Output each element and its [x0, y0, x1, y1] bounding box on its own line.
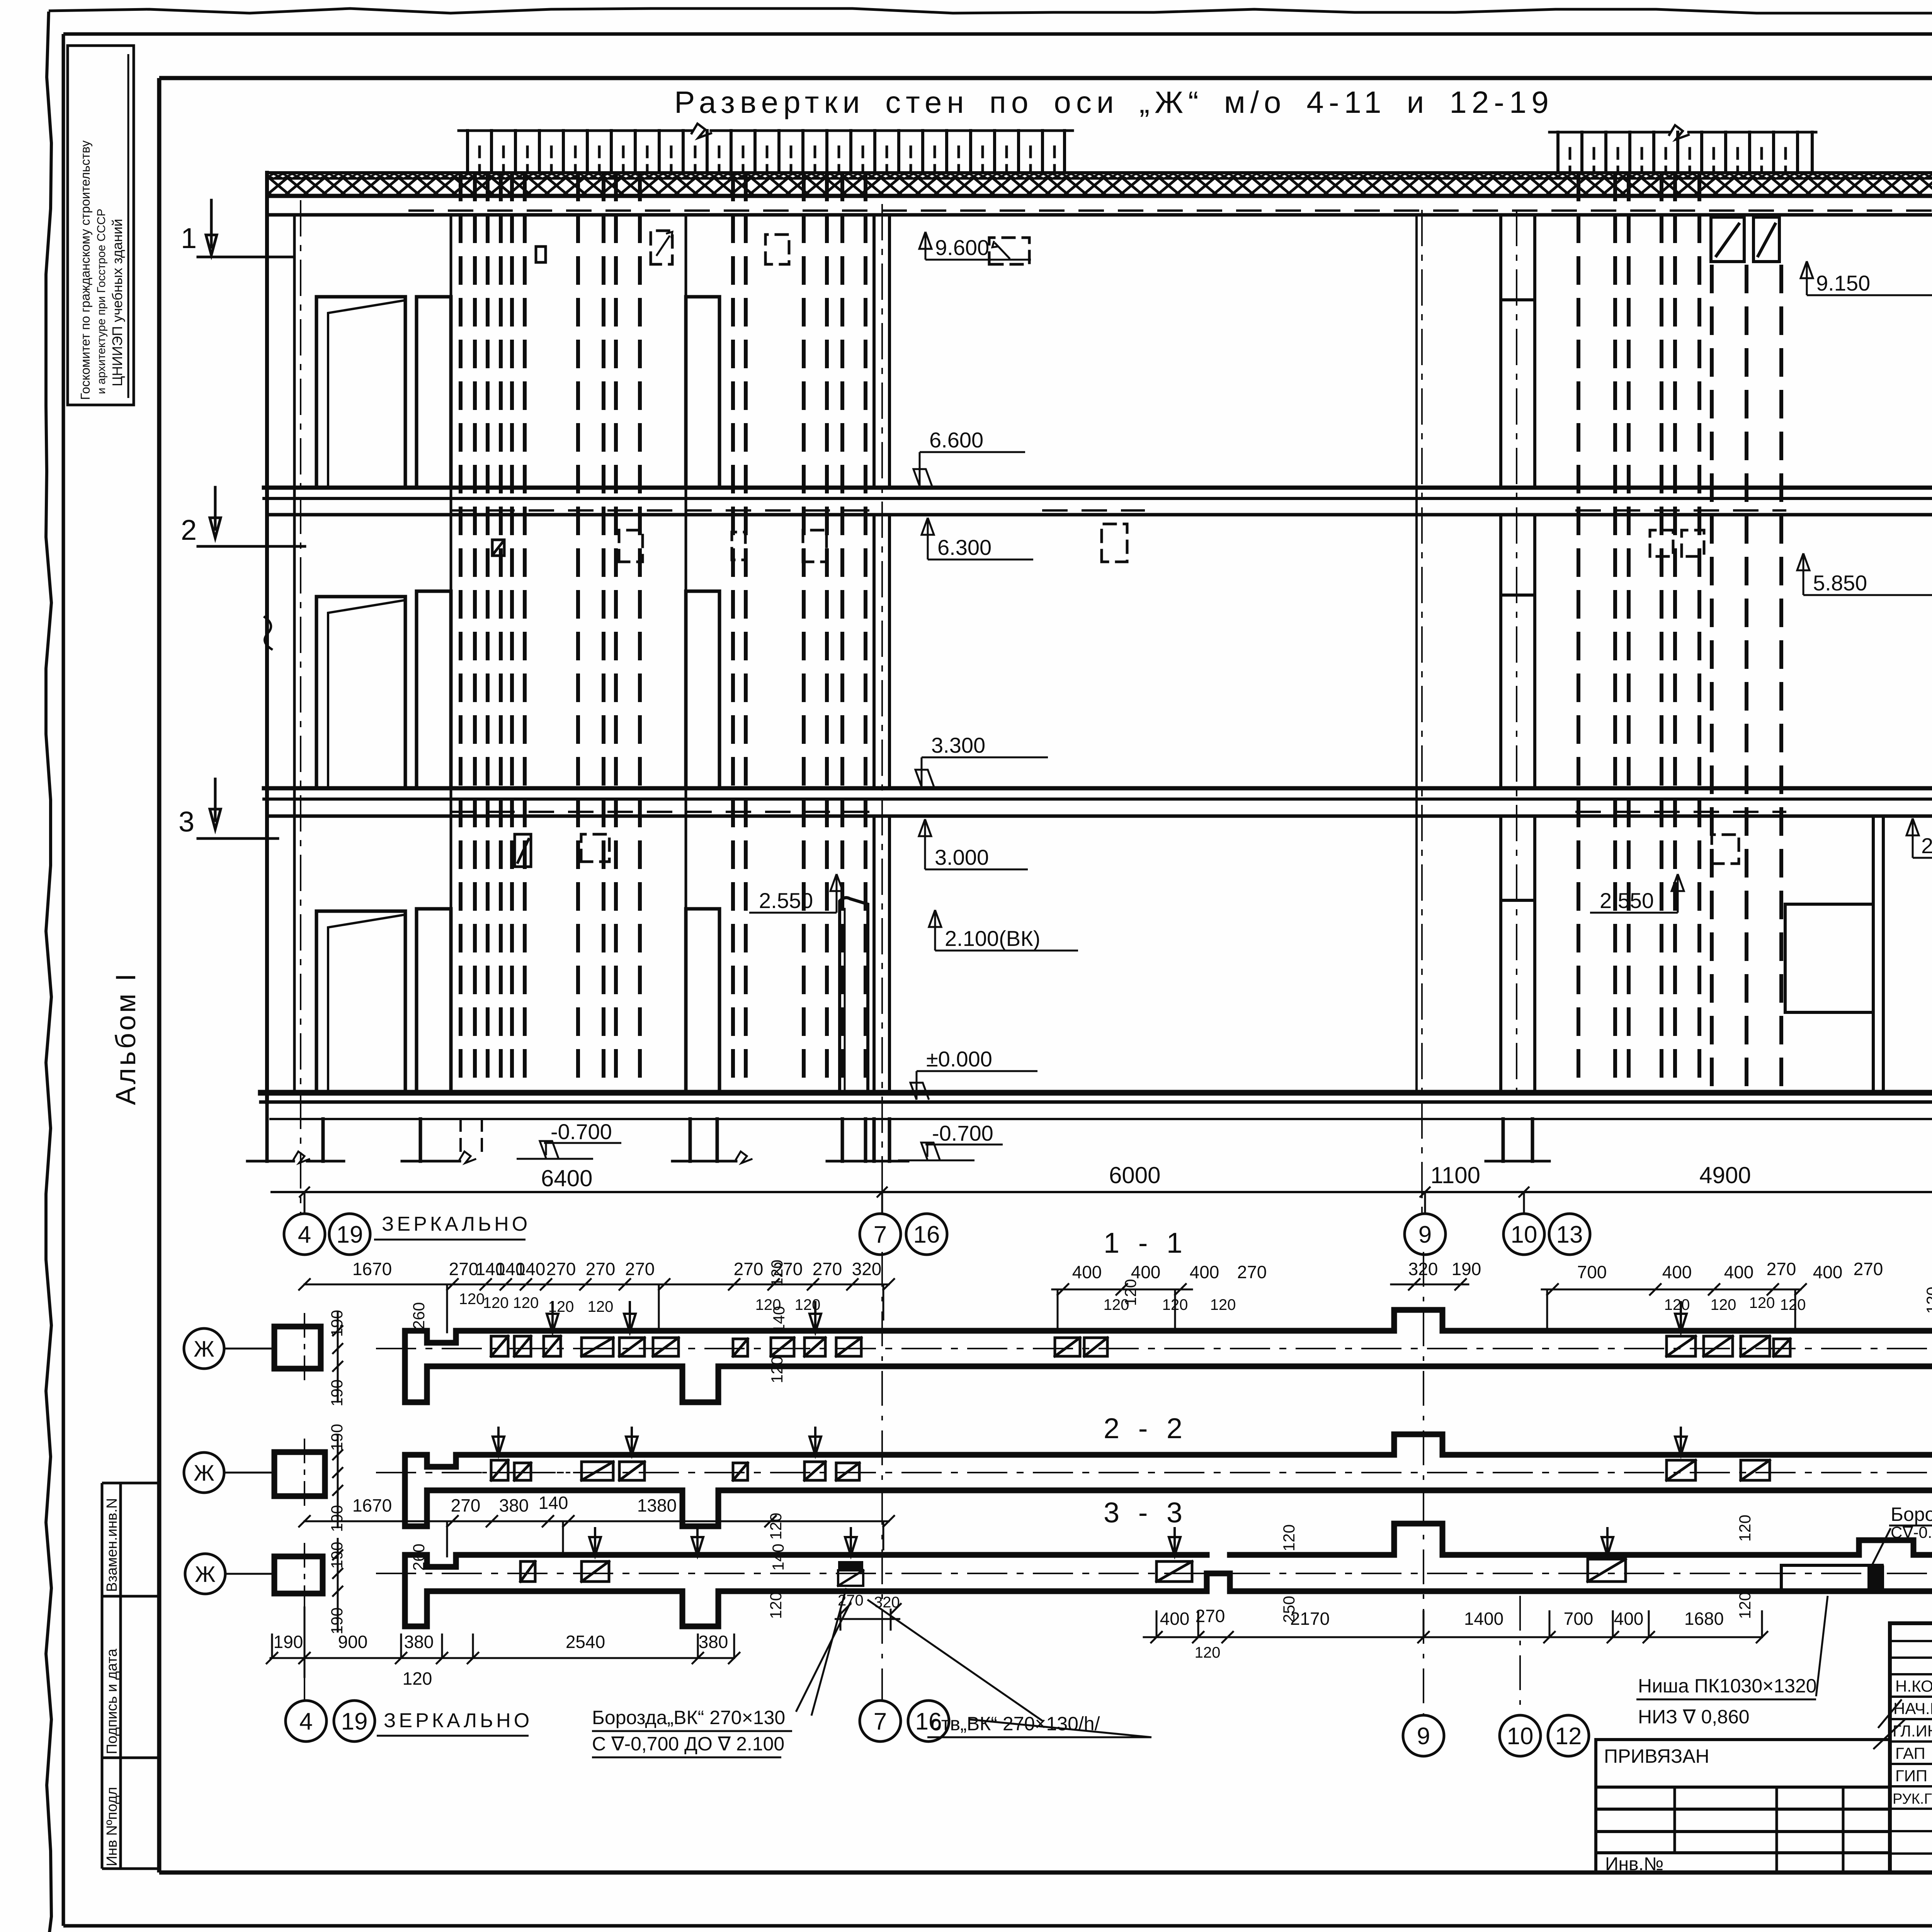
axis7 wall floor3: [874, 215, 889, 488]
svg-text:Госкомитет по гражданскому стр: Госкомитет по гражданскому строительству: [78, 140, 92, 400]
roof vent pipe comb right: [1549, 131, 1816, 134]
main dimension line: [270, 1187, 1932, 1213]
svg-text:12: 12: [1555, 1723, 1582, 1750]
svg-text:120: 120: [767, 1513, 785, 1540]
svg-text:2 - 2: 2 - 2: [1104, 1412, 1188, 1444]
svg-text:400: 400: [1190, 1262, 1219, 1282]
strip 1-1 bottom vent protrusion: [682, 1366, 718, 1402]
axis verticals through plan strips: [304, 1252, 1520, 1714]
axis10 opening floor3: [1501, 215, 1535, 488]
vent boxes top right floor3: [1711, 217, 1744, 262]
svg-text:320: 320: [874, 1594, 900, 1611]
svg-text:270: 270: [625, 1259, 655, 1279]
svg-text:2.800: 2.800: [1921, 833, 1932, 858]
section mark 3 left: [198, 779, 278, 838]
svg-text:120: 120: [588, 1298, 614, 1315]
svg-text:270: 270: [838, 1592, 864, 1609]
svg-text:4: 4: [299, 1708, 313, 1735]
svg-text:4: 4: [298, 1221, 311, 1248]
svg-text:270: 270: [1237, 1262, 1267, 1282]
svg-text:120: 120: [768, 1356, 786, 1383]
svg-text:3.300: 3.300: [931, 733, 985, 757]
svg-text:9.150: 9.150: [1816, 271, 1870, 295]
svg-text:С ∇-0,700 ДО ∇ 2.100: С ∇-0,700 ДО ∇ 2.100: [592, 1733, 784, 1755]
strip 2-2: [184, 1428, 1932, 1526]
svg-text:Ниша ПК1030×1320: Ниша ПК1030×1320: [1638, 1675, 1817, 1697]
squiggle break on comb: [692, 124, 711, 138]
strip 1-1 centerline: [377, 1348, 1932, 1349]
svg-text:400: 400: [1072, 1262, 1102, 1282]
svg-text:ГЛ.ИНЖ.М.: ГЛ.ИНЖ.М.: [1893, 1722, 1932, 1740]
svg-text:700: 700: [1564, 1609, 1594, 1629]
svg-text:Борозда„ВК“ 270×130: Борозда„ВК“ 270×130: [592, 1707, 785, 1728]
axis9 partition floor3-1st: [1415, 215, 1418, 1093]
horizontal dashed lines under ceilings: [410, 211, 1932, 812]
svg-text:120: 120: [403, 1668, 432, 1689]
svg-text:19: 19: [337, 1221, 363, 1248]
svg-text:320: 320: [852, 1259, 882, 1279]
strip 1-1 axis-4 wall square: [274, 1327, 321, 1369]
main outline: [1890, 1623, 1932, 1872]
svg-text:120: 120: [1195, 1644, 1221, 1661]
svg-text:Подпись и дата: Подпись и дата: [104, 1648, 120, 1754]
svg-text:ЗЕРКАЛЬНО: ЗЕРКАЛЬНО: [384, 1709, 532, 1732]
svg-text:19: 19: [341, 1708, 368, 1735]
bottom axis circles row: [286, 1701, 1589, 1756]
svg-text:Ж: Ж: [195, 1562, 216, 1587]
svg-text:400: 400: [1614, 1609, 1644, 1629]
svg-text:РУК.ГР.АРХ: РУК.ГР.АРХ: [1893, 1791, 1932, 1807]
svg-text:140: 140: [539, 1493, 568, 1513]
arrows above strip 1-1: [547, 1302, 1687, 1332]
svg-text:400: 400: [1662, 1262, 1692, 1282]
svg-text:3 - 3: 3 - 3: [1104, 1497, 1188, 1529]
vent outlet squares floor2: [492, 540, 504, 556]
svg-text:120: 120: [767, 1592, 785, 1619]
strip 1-1 vent hatched blocks: [491, 1336, 1790, 1356]
svg-text:1670: 1670: [352, 1495, 392, 1515]
svg-text:9: 9: [1418, 1221, 1432, 1248]
svg-text:и архитектуре при Госстрое ССС: и архитектуре при Госстрое СССР: [95, 209, 108, 394]
axis 7 dash-dot line: [881, 205, 883, 1213]
svg-text:10: 10: [1507, 1723, 1534, 1750]
svg-text:400: 400: [1813, 1262, 1843, 1282]
svg-text:16: 16: [913, 1221, 940, 1248]
svg-text:120: 120: [1736, 1592, 1754, 1619]
axis 9 dash-dot line: [1421, 211, 1423, 1213]
svg-text:380: 380: [404, 1632, 434, 1652]
svg-text:2540: 2540: [566, 1632, 605, 1652]
svg-text:3: 3: [179, 806, 194, 838]
slab 0.000: [261, 1090, 1932, 1096]
section mark 2 left: [198, 487, 305, 546]
svg-text:400: 400: [1160, 1609, 1190, 1629]
dim chain below strip 3-3 right: [1144, 1636, 1762, 1638]
svg-text:2: 2: [181, 514, 197, 546]
svg-text:270: 270: [813, 1259, 842, 1279]
ceiling 1st floor: [267, 815, 1932, 818]
svg-text:6.600: 6.600: [929, 428, 983, 452]
svg-text:120 120: 120 120: [483, 1294, 539, 1311]
svg-text:700: 700: [1577, 1262, 1607, 1282]
signature table grid: [1890, 1623, 1932, 1872]
svg-text:9: 9: [1417, 1723, 1430, 1750]
svg-text:Инв Nºподл: Инв Nºподл: [104, 1787, 120, 1866]
svg-text:270: 270: [1196, 1606, 1225, 1626]
svg-text:140: 140: [516, 1259, 546, 1279]
svg-text:Развертки стен по оси „Ж“ м/о: Развертки стен по оси „Ж“ м/о 4-11 и 12-…: [674, 85, 1554, 119]
svg-text:120: 120: [1210, 1296, 1236, 1313]
svg-text:270: 270: [449, 1259, 479, 1279]
svg-text:120: 120: [1749, 1294, 1775, 1311]
wall break squiggles left wall: [265, 617, 272, 649]
svg-text:ЗЕРКАЛЬНО: ЗЕРКАЛЬНО: [382, 1213, 531, 1235]
svg-text:1: 1: [181, 222, 197, 254]
bottom-left sidebar table: [102, 1483, 159, 1869]
arrows above strip 3-3: [589, 1528, 1613, 1556]
svg-text:-0.700: -0.700: [551, 1119, 612, 1144]
section mark 1 left: [198, 200, 294, 257]
niche right floor1: [1873, 816, 1883, 1093]
svg-text:6.300: 6.300: [937, 535, 992, 560]
svg-text:120: 120: [1280, 1524, 1298, 1551]
middle opening floor3: [686, 297, 719, 488]
svg-text:ГАП: ГАП: [1895, 1744, 1925, 1762]
leader texts bottom left: [592, 1503, 1932, 1755]
svg-text:Борозда 130×270: Борозда 130×270: [1891, 1503, 1932, 1525]
dim chain above strip 3-3: [304, 1520, 889, 1522]
svg-text:270: 270: [546, 1259, 576, 1279]
svg-text:7: 7: [874, 1708, 887, 1735]
svg-text:120: 120: [548, 1298, 574, 1315]
svg-text:2.550: 2.550: [1600, 888, 1654, 913]
svg-text:260: 260: [410, 1302, 428, 1329]
svg-text:Ж: Ж: [194, 1337, 214, 1362]
signature table texts: [1893, 1677, 1932, 1807]
svg-text:270: 270: [451, 1495, 481, 1515]
door floor3: [316, 297, 405, 488]
slab +6.600: [264, 486, 1932, 490]
svg-text:270: 270: [586, 1259, 616, 1279]
pilaster ВК floor1: [840, 898, 868, 1093]
svg-text:5.850: 5.850: [1813, 571, 1867, 595]
svg-text:ПРИВЯЗАН: ПРИВЯЗАН: [1604, 1745, 1709, 1767]
svg-text:250: 250: [1280, 1596, 1298, 1623]
svg-text:190: 190: [1452, 1259, 1481, 1279]
opening A floor3: [417, 297, 451, 488]
svg-text:120: 120: [1923, 1287, 1932, 1314]
signature squiggles: [1874, 1680, 1932, 1804]
vent outlet squares floor3: [536, 247, 546, 262]
privyazan box and grid: [1596, 1740, 1890, 1872]
svg-text:6400: 6400: [541, 1165, 592, 1191]
svg-text:Н.КОНТР.: Н.КОНТР.: [1895, 1677, 1932, 1695]
axis 10/13 dash-dot line: [1516, 211, 1517, 1094]
svg-text:1380: 1380: [637, 1495, 677, 1515]
svg-text:400: 400: [1724, 1262, 1754, 1282]
svg-text:270: 270: [1767, 1259, 1796, 1279]
svg-text:2.550: 2.550: [759, 888, 813, 913]
dim chain below strip 3-3 left: [270, 1657, 734, 1659]
svg-text:380: 380: [499, 1495, 529, 1515]
svg-text:9.600: 9.600: [935, 235, 989, 260]
svg-text:120: 120: [1711, 1296, 1736, 1313]
svg-text:120: 120: [459, 1291, 485, 1308]
svg-text:Альбом I: Альбом I: [111, 971, 141, 1105]
top-left institution stamp box: [68, 46, 134, 405]
vent outlet squares floor1: [515, 834, 531, 867]
svg-text:Взамен.инв.N: Взамен.инв.N: [104, 1498, 120, 1592]
svg-text:270: 270: [734, 1259, 764, 1279]
slab +3.300: [264, 786, 1932, 791]
svg-text:НАЧ.МАСТ: НАЧ.МАСТ: [1893, 1699, 1932, 1718]
ceiling 2nd floor: [267, 513, 1932, 517]
borozda black element at axis 7: [838, 1561, 863, 1570]
svg-text:120: 120: [1162, 1296, 1188, 1313]
svg-text:ЦНИИЭП учебных зданий: ЦНИИЭП учебных зданий: [109, 219, 125, 386]
svg-text:7: 7: [874, 1221, 887, 1248]
svg-text:120: 120: [1780, 1296, 1806, 1313]
svg-text:Инв.№: Инв.№: [1605, 1854, 1663, 1874]
elevation level marks: [517, 232, 1932, 1160]
svg-text:120: 120: [768, 1260, 786, 1287]
vertical 190 dim chains at plan squares: [332, 1312, 343, 1633]
shaft solid edges: [450, 215, 452, 1093]
foundation top line: [270, 1118, 1932, 1120]
svg-text:120: 120: [1736, 1515, 1754, 1542]
svg-text:1680: 1680: [1684, 1609, 1724, 1629]
svg-text:140: 140: [770, 1306, 788, 1333]
svg-text:13: 13: [1556, 1221, 1583, 1248]
roof vent pipe comb left: [459, 129, 1073, 132]
svg-text:ГИП: ГИП: [1895, 1767, 1927, 1785]
svg-text:1670: 1670: [352, 1259, 392, 1279]
axis Ж circle 1: [184, 1328, 224, 1369]
svg-text:120: 120: [795, 1296, 821, 1313]
svg-text:260: 260: [410, 1544, 428, 1571]
strip 1-1 wall outline: [405, 1310, 1932, 1402]
svg-text:140: 140: [769, 1544, 787, 1571]
svg-text:10: 10: [1511, 1221, 1537, 1248]
svg-text:6000: 6000: [1109, 1162, 1160, 1188]
niche PK: [1781, 1565, 1882, 1591]
svg-text:120: 120: [1121, 1279, 1139, 1306]
dim chain above strip 1-1: [304, 1284, 1801, 1289]
svg-text:НИЗ ∇ 0,860: НИЗ ∇ 0,860: [1638, 1706, 1750, 1728]
axis10 opening floor1: [1501, 816, 1535, 1093]
roof hatched band: [269, 174, 1932, 179]
svg-text:Ж: Ж: [194, 1461, 214, 1486]
svg-text:1 - 1: 1 - 1: [1104, 1227, 1188, 1259]
svg-text:380: 380: [699, 1632, 728, 1652]
svg-text:2.100(ВК): 2.100(ВК): [945, 926, 1040, 951]
left wall verticals: [265, 173, 269, 1102]
svg-text:±0.000: ±0.000: [926, 1047, 992, 1071]
svg-text:-0.700: -0.700: [932, 1121, 993, 1145]
svg-text:4900: 4900: [1699, 1162, 1751, 1188]
paper torn edge top: [49, 9, 1932, 13]
strip 3-3: [185, 1516, 1932, 1677]
axis circles row: [284, 1214, 1932, 1255]
svg-text:190: 190: [274, 1632, 303, 1652]
svg-text:120: 120: [1664, 1296, 1690, 1313]
floor ceiling line 3rd floor: [267, 213, 1932, 217]
svg-text:1400: 1400: [1464, 1609, 1503, 1629]
svg-text:270: 270: [1854, 1259, 1883, 1279]
paper torn edge left: [46, 12, 51, 1932]
svg-text:3.000: 3.000: [935, 845, 989, 869]
axis 4 dash-dot line: [300, 201, 301, 1213]
Ж letters in plan axis circles: [194, 1337, 216, 1587]
svg-text:1100: 1100: [1430, 1162, 1480, 1188]
